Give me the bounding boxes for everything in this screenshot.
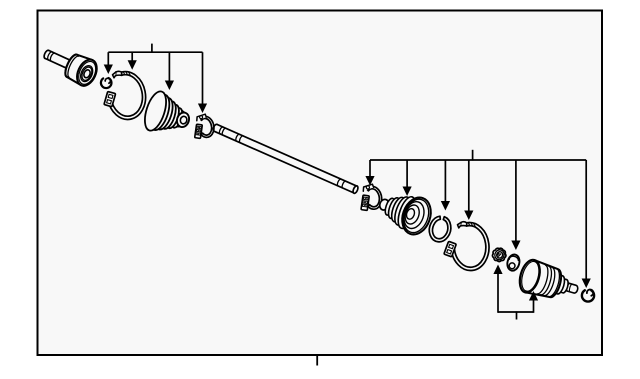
left callout bracket bbox=[108, 44, 202, 53]
arrow to left boot bbox=[165, 52, 174, 90]
arrow to right boot bbox=[403, 160, 412, 196]
spline washer / tone ring bbox=[492, 248, 506, 261]
arrow to right large band bbox=[464, 160, 473, 220]
boot band (left, small) bbox=[195, 114, 214, 138]
arrow to right small band bbox=[365, 160, 374, 186]
drive shaft bbox=[213, 124, 359, 194]
outboard joint stub shaft bbox=[44, 50, 74, 70]
arrow to set ring bbox=[104, 52, 113, 74]
arrow to spline washer bbox=[493, 265, 502, 313]
boot (left) bbox=[141, 89, 191, 133]
arrow to inboard joint bbox=[529, 291, 538, 313]
arrow to circlip bbox=[582, 160, 591, 288]
inboard joint bbox=[516, 258, 577, 298]
arrow to left small band bbox=[198, 52, 207, 113]
boot (right) bbox=[378, 194, 435, 239]
bottom callout bracket bbox=[498, 311, 534, 319]
boot band (right, large) bbox=[444, 222, 489, 271]
right callout bracket bbox=[370, 150, 586, 161]
outboard joint housing bbox=[63, 53, 101, 89]
snap ring bbox=[429, 216, 451, 242]
bottom center tick bbox=[316, 355, 318, 366]
boot band (right, small) bbox=[361, 184, 382, 210]
arrow to cone washer bbox=[511, 160, 520, 250]
set ring (left) bbox=[101, 78, 112, 88]
boot band (left, large) bbox=[104, 71, 146, 119]
circlip (right end) bbox=[582, 290, 594, 302]
arrow to left large band bbox=[128, 52, 137, 70]
cone spacer washer bbox=[506, 253, 521, 272]
arrow to snap ring bbox=[441, 160, 450, 211]
